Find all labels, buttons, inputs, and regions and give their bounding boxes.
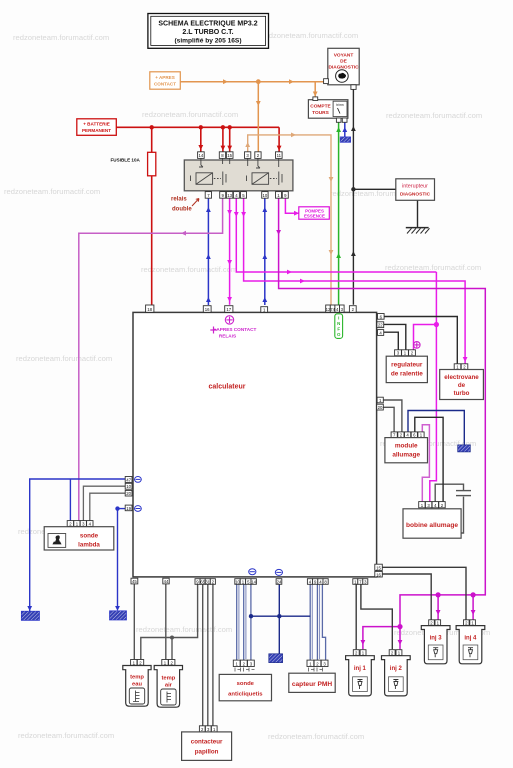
svg-text:sonde: sonde: [80, 533, 99, 540]
svg-text:de: de: [458, 382, 466, 389]
svg-text:air: air: [165, 683, 173, 689]
svg-text:16: 16: [376, 572, 381, 577]
svg-text:PERMANENT: PERMANENT: [82, 128, 111, 133]
svg-text:N: N: [337, 321, 340, 326]
svg-text:20: 20: [126, 491, 131, 496]
svg-text:calculateur: calculateur: [209, 384, 246, 391]
svg-text:44: 44: [164, 579, 169, 584]
svg-text:bobine allumage: bobine allumage: [406, 522, 458, 529]
svg-text:14: 14: [199, 153, 204, 158]
svg-text:contacteur: contacteur: [191, 739, 223, 746]
svg-text:capteur PMH: capteur PMH: [292, 681, 333, 688]
svg-text:sonde: sonde: [237, 681, 255, 687]
svg-text:temp: temp: [161, 676, 175, 682]
svg-text:relais: relais: [171, 197, 187, 203]
svg-text:inj 1: inj 1: [354, 666, 367, 672]
svg-text:10: 10: [235, 579, 240, 584]
svg-text:47: 47: [126, 477, 131, 482]
svg-text:regulateur: regulateur: [391, 362, 423, 369]
svg-text:eau: eau: [132, 682, 142, 688]
svg-text:ESSENCE: ESSENCE: [304, 214, 325, 219]
svg-text:I: I: [338, 316, 339, 321]
svg-text:45: 45: [132, 579, 137, 584]
svg-text:18: 18: [147, 307, 152, 312]
svg-text:module: module: [395, 443, 418, 450]
svg-text:VOYANT: VOYANT: [334, 53, 354, 59]
svg-text:O: O: [337, 332, 341, 337]
svg-text:inj 2: inj 2: [390, 666, 403, 672]
svg-text:lambda: lambda: [78, 542, 100, 549]
svg-text:13: 13: [227, 193, 232, 198]
svg-text:redzoneteam.forumactif.com: redzoneteam.forumactif.com: [18, 731, 114, 740]
svg-text:TOURS: TOURS: [312, 110, 330, 116]
svg-text:11: 11: [277, 153, 282, 158]
svg-text:DE: DE: [340, 59, 347, 65]
svg-text:redzoneteam.forumactif.com: redzoneteam.forumactif.com: [386, 111, 482, 120]
svg-text:15: 15: [227, 153, 232, 158]
svg-text:redzoneteam.forumactif.com: redzoneteam.forumactif.com: [268, 732, 364, 741]
svg-text:+ APRES: + APRES: [155, 75, 175, 80]
svg-text:17: 17: [226, 307, 231, 312]
svg-text:redzoneteam.forumactif.com: redzoneteam.forumactif.com: [141, 265, 237, 274]
svg-text:16: 16: [205, 307, 210, 312]
svg-text:FUSIBLE 10A: FUSIBLE 10A: [111, 158, 141, 163]
svg-text:redzoneteam.forumactif.com: redzoneteam.forumactif.com: [16, 354, 112, 363]
svg-text:(simplifié by 205 16S): (simplifié by 205 16S): [174, 38, 241, 45]
svg-text:electrovane: electrovane: [444, 374, 479, 381]
svg-text:20: 20: [378, 405, 383, 410]
svg-text:tr/mn: tr/mn: [336, 103, 343, 107]
svg-text:interupteur: interupteur: [402, 184, 428, 190]
svg-text:redzoneteam.forumactif.com: redzoneteam.forumactif.com: [142, 110, 238, 119]
svg-text:RELAIS: RELAIS: [219, 333, 236, 338]
svg-text:10: 10: [126, 484, 131, 489]
svg-text:redzoneteam.forumactif.com: redzoneteam.forumactif.com: [385, 263, 481, 272]
svg-text:redzoneteam.forumactif.com: redzoneteam.forumactif.com: [136, 625, 232, 634]
svg-text:22: 22: [378, 323, 383, 328]
svg-text:14: 14: [251, 579, 256, 584]
svg-text:redzoneteam.forumactif.com: redzoneteam.forumactif.com: [262, 31, 358, 40]
svg-text:2.L TURBO C.T.: 2.L TURBO C.T.: [182, 29, 233, 36]
svg-text:turbo: turbo: [454, 390, 470, 397]
svg-text:+ BATTERIE: + BATTERIE: [83, 122, 110, 127]
svg-text:redzoneteam.forumactif.com: redzoneteam.forumactif.com: [4, 187, 100, 196]
svg-text:inj 4: inj 4: [464, 636, 477, 642]
svg-text:COMPTE: COMPTE: [310, 104, 331, 110]
svg-text:F: F: [337, 327, 340, 332]
svg-text:15: 15: [376, 565, 381, 570]
svg-text:papillon: papillon: [195, 749, 219, 756]
svg-text:anticliquetis: anticliquetis: [228, 692, 263, 698]
svg-text:temp: temp: [130, 675, 144, 681]
svg-text:SCHEMA ELECTRIQUE MP3.2: SCHEMA ELECTRIQUE MP3.2: [158, 21, 257, 28]
svg-text:24: 24: [277, 579, 282, 584]
svg-text:double: double: [172, 207, 192, 213]
svg-text:19: 19: [126, 506, 131, 511]
svg-text:allumage: allumage: [392, 452, 420, 459]
svg-text:DIAGNOSTIC: DIAGNOSTIC: [400, 192, 431, 198]
svg-text:inj 3: inj 3: [430, 636, 443, 642]
svg-text:10: 10: [263, 193, 268, 198]
svg-text:+APRES CONTACT: +APRES CONTACT: [214, 327, 257, 332]
svg-text:redzoneteam.forumactif.com: redzoneteam.forumactif.com: [13, 33, 109, 42]
svg-text:CONTACT: CONTACT: [154, 82, 176, 87]
svg-text:de ralentie: de ralentie: [391, 371, 423, 378]
